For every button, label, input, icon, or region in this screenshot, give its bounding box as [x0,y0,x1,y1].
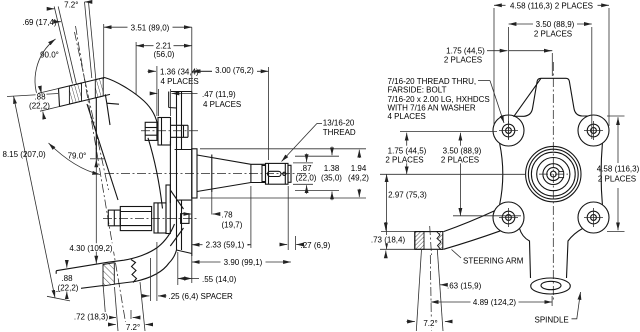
svg-text:3.00 (76,2): 3.00 (76,2) [215,66,254,75]
lower bolt end nub [108,210,120,226]
left view lower dims [55,147,369,332]
dim 1.38 (35,0) [331,147,333,156]
hub step lines [175,150,192,201]
groove [262,163,266,184]
bottom 7.2 line R [140,282,145,331]
steering arm hatched block [103,263,114,286]
steering arm left end cap [55,271,57,292]
dim 3.90 (99,1) [192,261,291,263]
kingpin axis centerline [76,26,128,331]
dim .72 (18,3) [130,310,132,319]
dim 3.50 top [508,27,510,139]
dim .73 [385,222,387,230]
dim .63 [440,284,447,286]
flange right face / extension [191,27,193,283]
svg-text:2 PLACES: 2 PLACES [385,156,423,165]
svg-text:1.36 (34,4): 1.36 (34,4) [160,68,199,77]
kingpin angle extension pair B [85,2,92,78]
dust shield cone [170,190,183,246]
upper boss hatched right [95,78,103,98]
svg-text:2 PLACES: 2 PLACES [598,175,636,184]
svg-text:.47 (11,9): .47 (11,9) [202,90,236,99]
dim .55 (14,0) [177,252,179,285]
svg-text:4 PLACES: 4 PLACES [203,100,241,109]
dim 2.97 [386,174,388,249]
dim 7.2 bottom left [108,324,116,326]
cone silhouette between bolts [148,138,163,209]
svg-text:(22,2): (22,2) [58,284,79,293]
svg-text:4 PLACES: 4 PLACES [388,112,426,121]
upper bolt washer [158,118,171,146]
svg-text:3.50 (88,9): 3.50 (88,9) [443,147,482,156]
dim 7.2 bottom right [407,321,415,323]
svg-text:1.38: 1.38 [324,164,340,173]
svg-text:4 PLACES: 4 PLACES [161,77,199,86]
body face behind washers [169,141,171,203]
hub key [559,172,564,178]
svg-text:SPINDLE: SPINDLE [535,316,569,325]
svg-text:(35,0): (35,0) [321,174,342,183]
dim .78 (19,7) [211,192,213,215]
spindle axis slanted centerline [75,32,109,190]
svg-text:90.0°: 90.0° [40,51,59,60]
dim .27 (6,9) [287,186,289,250]
block centerline [430,226,432,255]
dim 3.51 (89,0) [104,26,192,28]
shaft centerline [105,172,310,174]
svg-text:.88: .88 [61,274,73,283]
svg-text:(22,0): (22,0) [296,174,317,183]
lobe circle BR [578,202,609,233]
upper boss hatched left [69,83,81,104]
dim 1.94 (49,2) [358,150,360,158]
svg-text:(56,0): (56,0) [154,50,175,59]
lower bolt nut [181,214,189,224]
block left edge extension [103,286,106,322]
steering arm block right view [415,232,424,250]
svg-text:(49,2): (49,2) [348,174,369,183]
svg-text:1.75 (44,5): 1.75 (44,5) [446,46,485,55]
left view part geometry [56,27,310,331]
svg-text:.55 (14,0): .55 (14,0) [202,275,237,284]
upper bolt shank [171,125,189,137]
svg-text:2 PLACES: 2 PLACES [534,30,572,39]
dim 4.58 right [607,115,625,117]
dim 4.30 (109,2) [95,110,97,264]
dim .87 (22,0) [306,154,308,163]
svg-text:1.94: 1.94 [351,164,367,173]
svg-text:2 PLACES: 2 PLACES [444,55,482,64]
svg-text:.87: .87 [300,164,312,173]
flange plate [169,92,192,257]
kingpin angle extension pair A [54,7,72,84]
svg-text:.72 (18,3): .72 (18,3) [74,313,109,322]
svg-text:.27 (6,9): .27 (6,9) [301,241,331,250]
body outline [444,78,603,278]
hub circles [526,146,581,201]
dim 4.89 [551,296,553,306]
lower bolt centerline [103,218,198,220]
upper bolt centerline [141,130,198,132]
spindle base cylinder [192,149,197,198]
bolt BR [587,211,600,224]
svg-text:THREAD: THREAD [323,128,356,137]
body left vertical edge [95,98,97,158]
extension line x=136.1 [135,42,137,95]
svg-text:1.75 (44,5): 1.75 (44,5) [388,147,427,156]
svg-text:(19,7): (19,7) [222,220,243,229]
dia dims extension lines [200,148,366,150]
left edge step [105,94,119,125]
lobe circle BL [493,202,524,233]
svg-text:2.33 (59,1): 2.33 (59,1) [206,241,245,250]
hub centerline horizontal [539,173,568,175]
dim .47 (11,9) 4 PLACES [150,92,158,94]
dust shield blade [166,185,170,234]
extension rows left stack [400,131,497,133]
upper boss outline [59,78,111,107]
svg-text:2.97 (75,3): 2.97 (75,3) [388,191,427,200]
svg-text:13/16-20: 13/16-20 [323,119,355,128]
block angle line L [416,249,421,331]
lower bolt hex head [120,207,151,231]
thread section [266,163,289,184]
body left slanted edge [87,104,118,200]
lobe circle TL [493,115,524,146]
bearing race line on taper [211,155,213,193]
svg-text:8.15 (207,0): 8.15 (207,0) [3,150,46,159]
svg-text:.78: .78 [222,211,234,220]
upper bolt hex head [145,122,157,140]
bottom 7.2 line L [115,287,119,331]
dim .88 (22,2) arm thickness [66,261,68,268]
right view dims [368,1,640,328]
dim 3.50 left [459,133,461,216]
spindle tip [288,165,291,182]
top profile curve [105,78,159,128]
svg-text:3.51 (89,0): 3.51 (89,0) [131,24,170,33]
svg-text:.25 (6,4) SPACER: .25 (6,4) SPACER [169,292,234,301]
svg-text:7.2°: 7.2° [423,319,437,328]
lower bolt washer [154,203,166,233]
block angle line R [437,249,443,331]
steering arm break zigzag [131,260,137,283]
label STEERING ARM [452,250,462,259]
dim 1.36 (34,4) 4 PLACES [148,70,157,72]
spindle boss oval outer [531,278,571,294]
svg-text:7.2°: 7.2° [64,1,78,10]
steering arm side view top edge [56,224,174,271]
dim 1.75 left [406,133,408,175]
bolt TL [502,124,515,137]
dim 2.21 (56,0) [136,45,192,47]
bolt BL [502,211,515,224]
svg-text:79.0°: 79.0° [68,152,87,161]
svg-text:.63 (15,9): .63 (15,9) [447,281,482,290]
svg-text:4.58 (116,3) 2 PLACES: 4.58 (116,3) 2 PLACES [510,1,593,10]
dim 2.33 (59,1) [250,186,252,248]
vertical centerline [552,62,554,302]
svg-text:3.50 (88,9): 3.50 (88,9) [536,20,575,29]
svg-text:.88: .88 [34,93,46,102]
lobe circle TR [578,115,609,146]
svg-text:4.30 (109,2): 4.30 (109,2) [69,244,112,253]
svg-text:3.90 (99,1): 3.90 (99,1) [224,258,263,267]
dim .25 (6,4) SPACER [150,258,152,301]
svg-text:.69 (17,4): .69 (17,4) [22,18,57,27]
svg-text:7.2°: 7.2° [126,323,140,332]
dim 3.00 (76,2) [192,70,269,72]
extension line x=103.7 [103,24,105,79]
spindle taper [197,155,266,192]
svg-text:4.89 (124,2): 4.89 (124,2) [473,298,516,307]
dim 4.58 top [493,8,495,126]
svg-text:2 PLACES: 2 PLACES [441,156,479,165]
svg-text:.73 (18,4): .73 (18,4) [371,236,406,245]
spindle boss oval inner [541,281,561,289]
svg-text:FARSIDE: BOLT: FARSIDE: BOLT [388,86,447,95]
bolt TR [587,124,600,137]
svg-text:STEERING ARM: STEERING ARM [463,257,524,266]
steering arm side view bottom edge [56,250,176,291]
svg-text:4.58 (116,3): 4.58 (116,3) [597,165,640,174]
cotter pin slot [268,171,282,176]
